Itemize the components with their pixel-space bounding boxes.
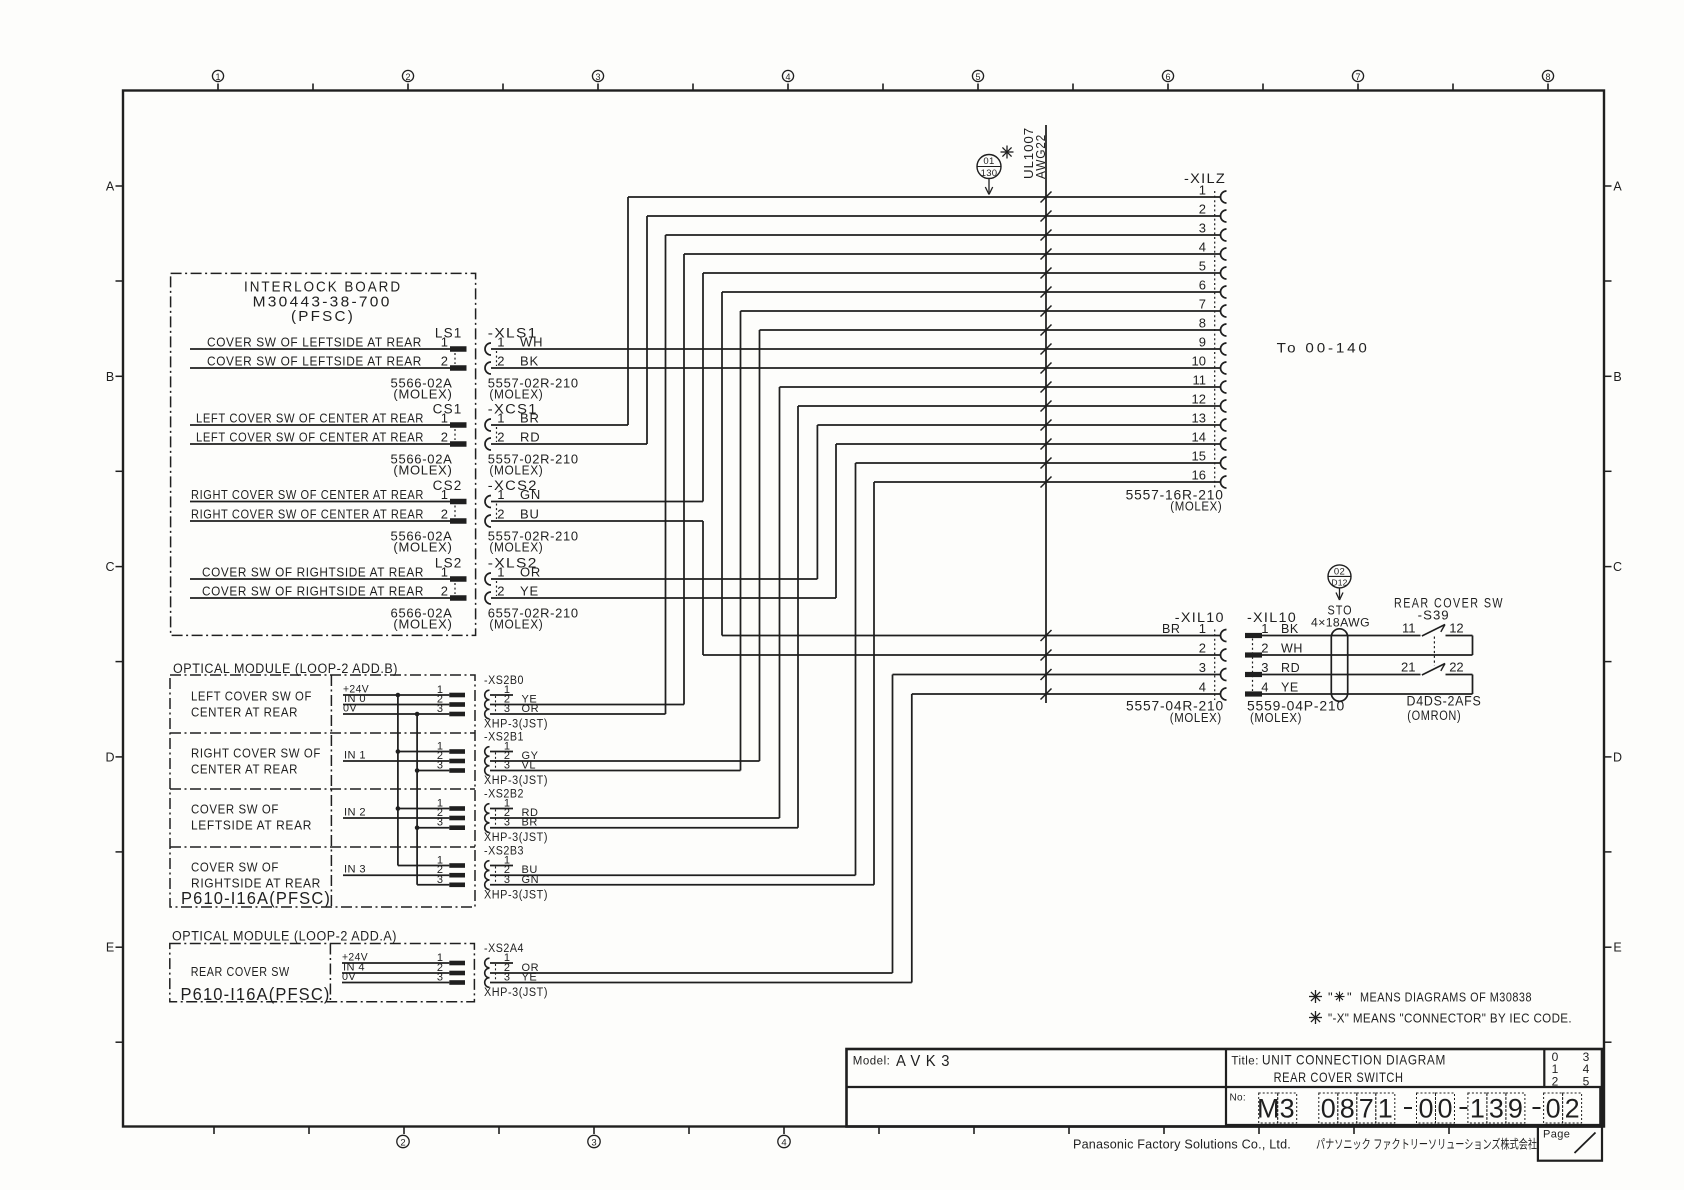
svg-text:2: 2	[405, 72, 410, 82]
svg-text:A: A	[1613, 180, 1622, 194]
svg-text:AVK3: AVK3	[896, 1053, 955, 1070]
-XS2B3 contacts	[485, 861, 490, 871]
svg-text:(MOLEX): (MOLEX)	[489, 617, 543, 632]
svg-text:11: 11	[1402, 621, 1416, 636]
svg-text:4: 4	[1199, 680, 1206, 695]
svg-text:(MOLEX): (MOLEX)	[393, 540, 452, 555]
svg-text:YE: YE	[520, 584, 539, 599]
svg-text:COVER SW OF RIGHTSIDE AT REAR: COVER SW OF RIGHTSIDE AT REAR	[202, 584, 424, 599]
svg-text:7: 7	[1199, 297, 1206, 312]
wire to XIL10-1 BR	[722, 635, 1221, 637]
svg-text:IN 2: IN 2	[344, 807, 366, 819]
wire XS2A4-3 YE lead	[490, 982, 912, 984]
svg-text:6: 6	[1199, 278, 1206, 293]
svg-text:E: E	[1613, 941, 1621, 955]
svg-text:1: 1	[1199, 183, 1206, 198]
-XS2B1 housing link	[495, 753, 497, 770]
top ruler ticks	[217, 84, 219, 91]
CS2 pin2 tab	[450, 518, 467, 524]
-XS2B0 contacts	[485, 690, 490, 700]
svg-text:3: 3	[1199, 660, 1206, 675]
bundle wire join slashes	[1041, 192, 1052, 203]
svg-text:Panasonic Factory Solutions Co: Panasonic Factory Solutions Co., Ltd.	[1073, 1137, 1291, 1152]
svg-text:0: 0	[1437, 1094, 1452, 1124]
svg-text:2: 2	[1199, 641, 1206, 656]
wire -XS2B0 board lead	[343, 694, 449, 696]
svg-text:22: 22	[1449, 660, 1463, 675]
0V bus wire	[416, 714, 418, 885]
wire XCS2-2 BU lead	[491, 520, 703, 522]
-XILZ housing link	[1214, 191, 1216, 488]
svg-text:2: 2	[497, 584, 504, 599]
svg-text:14: 14	[1192, 430, 1206, 445]
balloon 02 arrow	[1339, 588, 1341, 598]
svg-text:BK: BK	[520, 354, 539, 369]
CS1 pin2 tab	[450, 441, 467, 447]
junction dots +24V bus	[396, 693, 401, 698]
svg-text:10: 10	[1192, 354, 1206, 369]
-XCS1 housing link	[496, 427, 498, 442]
svg-text:2: 2	[497, 507, 504, 522]
svg-text:1: 1	[1261, 621, 1268, 636]
svg-text:A: A	[106, 180, 115, 194]
+24V bus wire	[397, 695, 399, 866]
-XLS1 pin1 contact	[485, 343, 491, 355]
svg-text:1: 1	[497, 565, 504, 580]
-XLS2 pin1 contact	[485, 573, 491, 585]
svg-text:CENTER AT REAR: CENTER AT REAR	[191, 705, 298, 720]
svg-text:": "	[1328, 990, 1333, 1005]
svg-text:(OMRON): (OMRON)	[1407, 708, 1461, 723]
svg-text:REAR COVER SWITCH: REAR COVER SWITCH	[1274, 1069, 1404, 1085]
CS1 pin1 tab	[450, 422, 467, 428]
svg-text:OR: OR	[520, 565, 541, 580]
svg-text:XHP-3(JST): XHP-3(JST)	[484, 889, 548, 901]
svg-text:IN 1: IN 1	[344, 750, 366, 762]
wire XCS2-2 BU to XIL10-2 vertical	[702, 521, 704, 655]
wire XS2A4-2 OR to XIL10-3 vertical	[892, 675, 894, 974]
wire XS2B1-3 VL to XILZ-7	[741, 310, 1221, 312]
svg-text:6: 6	[1165, 72, 1170, 82]
svg-text:P610-I16A(PFSC): P610-I16A(PFSC)	[181, 888, 331, 908]
svg-text:D: D	[1613, 750, 1622, 764]
wire XIL10-3 RD to switch 21	[1262, 674, 1421, 676]
svg-text:BR: BR	[520, 411, 540, 426]
bottom zone numbers 2-4	[397, 1135, 409, 1147]
wire -XS2A4 board lead	[342, 962, 449, 964]
svg-text:COVER SW OF LEFTSIDE AT REAR: COVER SW OF LEFTSIDE AT REAR	[207, 354, 422, 369]
svg-text:2: 2	[1552, 1075, 1559, 1089]
svg-text:5: 5	[975, 72, 980, 82]
wire XCS1-1 BR to XILZ-1	[628, 196, 1221, 198]
wire -XS2B0 board lead	[343, 713, 449, 715]
wire LS2 pin1 board lead	[190, 578, 450, 580]
bottom ruler ticks	[213, 1127, 215, 1135]
svg-text:3: 3	[1489, 1094, 1504, 1124]
svg-text:OPTICAL MODULE (LOOP-2 ADD.A): OPTICAL MODULE (LOOP-2 ADD.A)	[172, 929, 397, 944]
wire -XS2B1 board lead	[343, 760, 449, 762]
svg-text:(MOLEX): (MOLEX)	[489, 540, 543, 555]
svg-text:2: 2	[441, 354, 448, 369]
svg-text:RIGHT COVER SW OF: RIGHT COVER SW OF	[191, 746, 321, 761]
svg-text:1: 1	[1199, 621, 1206, 636]
svg-text:IN 3: IN 3	[344, 864, 366, 876]
svg-text:M: M	[1257, 1094, 1280, 1124]
svg-text:XHP-3(JST): XHP-3(JST)	[484, 832, 548, 844]
-XCS1 pin1 contact	[485, 419, 491, 431]
svg-text:16: 16	[1192, 468, 1206, 483]
-XS2B2 housing link	[495, 810, 497, 827]
wire -XS2B1 board lead	[398, 751, 449, 753]
svg-text:7: 7	[1359, 1094, 1374, 1124]
svg-text:COVER SW OF LEFTSIDE AT REAR: COVER SW OF LEFTSIDE AT REAR	[207, 335, 422, 350]
wire XCS1-1 lead	[491, 424, 628, 426]
svg-text:BR: BR	[1162, 622, 1181, 636]
svg-text:Page: Page	[1543, 1129, 1570, 1141]
wire LS1 pin1 board lead	[190, 348, 450, 350]
-XCS2 housing link	[496, 504, 498, 520]
svg-text:1: 1	[497, 411, 504, 426]
-XS2A4 board tabs	[449, 961, 465, 966]
svg-text:LEFT COVER SW OF CENTER AT REA: LEFT COVER SW OF CENTER AT REAR	[196, 430, 424, 445]
svg-text:P610-I16A(PFSC): P610-I16A(PFSC)	[181, 984, 331, 1004]
wire XS2A4-2 OR lead	[490, 972, 893, 974]
svg-text:LEFT COVER SW OF: LEFT COVER SW OF	[191, 689, 312, 704]
svg-text:(MOLEX): (MOLEX)	[489, 387, 543, 402]
wire XIL10-4 YE return	[1262, 693, 1473, 695]
svg-text:11: 11	[1193, 373, 1207, 388]
title block frame	[847, 1049, 1603, 1127]
wire XS2B2-3 BR to XILZ-12	[798, 405, 1221, 407]
wire XS2B3-3 GN to XILZ-16	[874, 481, 1221, 483]
reference mark (top)	[1001, 146, 1014, 159]
svg-text:D12: D12	[1331, 577, 1347, 587]
-XLS1 pin2 contact	[485, 362, 491, 374]
svg-text:4: 4	[785, 72, 790, 82]
svg-text:2: 2	[497, 430, 504, 445]
LS1 pin2 tab	[450, 365, 467, 371]
svg-text:1: 1	[441, 487, 448, 502]
svg-text:(PFSC): (PFSC)	[291, 308, 355, 325]
wire XLS1-2 BK to XILZ-10	[491, 367, 1221, 369]
wire XS2B0-2 YE lead	[490, 704, 684, 706]
svg-text:BU: BU	[520, 507, 540, 522]
-XS2A4 contacts	[485, 958, 490, 968]
svg-text:B: B	[106, 370, 114, 384]
title block page box	[1538, 1126, 1602, 1160]
CS2 housing link	[454, 506, 456, 518]
svg-text:RIGHT COVER SW OF CENTER AT RE: RIGHT COVER SW OF CENTER AT REAR	[191, 487, 424, 502]
svg-text:3: 3	[437, 703, 443, 715]
wire XS2B0-3 OR to XILZ-3	[666, 234, 1221, 236]
connector -XIL10 plug pins	[1245, 633, 1262, 638]
svg-text:LS2: LS2	[435, 556, 463, 571]
-XS2B2 pin1 stub	[490, 808, 513, 810]
wire XS2B3-2 BU lead	[490, 874, 856, 876]
svg-text:E: E	[106, 941, 114, 955]
wire XILZ-6 to XIL10-1 BR	[722, 291, 1221, 293]
wire XLS2-2 YE lead	[491, 597, 836, 599]
svg-text:(MOLEX): (MOLEX)	[1170, 710, 1222, 725]
CS1 housing link	[454, 429, 456, 440]
-XCS2 pin2 contact	[485, 515, 491, 527]
svg-text:8: 8	[1545, 72, 1550, 82]
left ruler ticks	[116, 280, 124, 282]
-XS2B2 board tabs	[449, 806, 465, 811]
svg-text:Model:: Model:	[853, 1056, 891, 1068]
CS2 pin1 tab	[450, 499, 467, 505]
wire LS2 pin2 board lead	[190, 597, 450, 599]
svg-text:COVER SW OF: COVER SW OF	[191, 860, 279, 875]
wire XCS2-1 GN to XILZ-5	[703, 272, 1221, 274]
balloon 02/D12	[1328, 565, 1351, 588]
svg-text:0: 0	[1418, 1094, 1433, 1124]
svg-text:LS1: LS1	[435, 326, 463, 341]
wire CS1 pin2 board lead	[190, 443, 450, 445]
svg-text:LEFT COVER SW OF CENTER AT REA: LEFT COVER SW OF CENTER AT REAR	[196, 411, 424, 426]
svg-text:5: 5	[1583, 1075, 1590, 1089]
svg-text:(MOLEX): (MOLEX)	[393, 617, 452, 632]
svg-text:OPTICAL MODULE (LOOP-2 ADD.B): OPTICAL MODULE (LOOP-2 ADD.B)	[173, 661, 398, 676]
svg-text:4: 4	[781, 1138, 786, 1149]
svg-text:2: 2	[441, 584, 448, 599]
wire CS1 pin1 board lead	[190, 424, 450, 426]
cable sheath STO	[1331, 629, 1347, 702]
-XS2B1 pin1 stub	[490, 751, 513, 753]
right ruler ticks	[1604, 280, 1612, 282]
svg-text:9: 9	[1508, 1094, 1523, 1124]
wire XLS2-1 OR lead	[491, 578, 817, 580]
svg-text:1: 1	[215, 72, 220, 82]
wire XS2B2-3 BR lead	[490, 827, 798, 829]
-XLS2 housing link	[496, 581, 498, 596]
wire -XS2A4 board lead	[342, 972, 449, 974]
svg-text:5: 5	[1199, 259, 1206, 274]
svg-text:WH: WH	[520, 335, 543, 350]
-XS2B3 pin1 stub	[490, 865, 513, 867]
svg-text:8: 8	[1340, 1094, 1355, 1124]
svg-text:-S39: -S39	[1418, 608, 1450, 623]
svg-text:"-X" MEANS "CONNECTOR" BY: "-X" MEANS "CONNECTOR" BY IEC CODE.	[1328, 1011, 1572, 1026]
svg-text:UNIT CONNECTION DIAGRAM: UNIT CONNECTION DIAGRAM	[1262, 1052, 1446, 1068]
svg-text:2: 2	[1199, 202, 1206, 217]
svg-text:B: B	[1613, 370, 1621, 384]
svg-text:WH: WH	[1281, 642, 1303, 656]
wire -XS2B2 board lead	[343, 817, 449, 819]
svg-text:9: 9	[1199, 335, 1206, 350]
-XS2A4 pin1 stub	[490, 962, 513, 964]
svg-text:(MOLEX): (MOLEX)	[393, 387, 452, 402]
LS2 pin2 tab	[450, 595, 467, 601]
wire XCS1-2 RD to XILZ-2	[647, 215, 1221, 217]
svg-text:C: C	[105, 560, 114, 574]
svg-text:Title:: Title:	[1231, 1056, 1259, 1068]
svg-text:0: 0	[1546, 1094, 1561, 1124]
svg-text:3: 3	[437, 874, 443, 886]
svg-text:REAR COVER SW: REAR COVER SW	[191, 964, 290, 979]
svg-text:No:: No:	[1230, 1093, 1246, 1104]
-XLS2 pin2 contact	[485, 592, 491, 604]
wire XS2B3-3 GN lead	[490, 884, 874, 886]
wire LS1 pin2 board lead	[190, 367, 450, 369]
-XS2A4 housing link	[495, 964, 497, 982]
wire -XS2B3 board lead	[343, 874, 449, 876]
svg-text:AWG22: AWG22	[1034, 134, 1048, 179]
drawing frame border	[123, 91, 1604, 1127]
svg-text:COVER SW OF RIGHTSIDE AT REAR: COVER SW OF RIGHTSIDE AT REAR	[202, 565, 424, 580]
svg-text:1: 1	[1378, 1094, 1393, 1124]
LS2 housing link	[454, 583, 456, 594]
svg-text:2: 2	[1565, 1094, 1580, 1124]
-XLS1 housing link	[496, 351, 498, 366]
svg-text:4: 4	[1261, 680, 1268, 695]
wire XS2A4-3 YE to XIL10-4 vertical	[911, 694, 913, 983]
balloon 01/130	[977, 155, 1001, 179]
svg-text:To 00-140: To 00-140	[1277, 340, 1370, 356]
wire XIL10-2 WH return	[1262, 654, 1473, 656]
svg-text:3: 3	[1199, 221, 1206, 236]
svg-text:4: 4	[1199, 240, 1206, 255]
svg-text:YE: YE	[1281, 681, 1299, 695]
switch return rail 12 to pin2	[1472, 636, 1474, 656]
svg-text:3: 3	[591, 1138, 596, 1149]
-XIL10 plug housing link	[1252, 639, 1254, 692]
svg-text:0: 0	[1321, 1094, 1336, 1124]
svg-text:12: 12	[1449, 621, 1463, 636]
wire -XS2B1 board lead	[417, 770, 449, 772]
-XS2B3 housing link	[495, 867, 497, 884]
-XS2B1 board tabs	[449, 749, 465, 754]
svg-text:2: 2	[1261, 641, 1268, 656]
svg-text:3: 3	[1261, 660, 1268, 675]
-XS2B0 housing link	[495, 696, 497, 713]
svg-text:4×18AWG: 4×18AWG	[1311, 616, 1370, 630]
svg-text:02: 02	[1334, 566, 1345, 577]
-XS2B0 board tabs	[449, 693, 465, 698]
wire to XIL10-3	[893, 674, 1221, 676]
wire to XIL10-4	[912, 693, 1221, 695]
LS1 pin1 tab	[450, 346, 467, 352]
svg-text:21: 21	[1401, 660, 1415, 675]
-XS2B2 contacts	[485, 804, 490, 814]
svg-text:XHP-3(JST): XHP-3(JST)	[484, 987, 548, 999]
connector -XILZ contacts	[1221, 191, 1227, 203]
svg-text:3: 3	[437, 817, 443, 829]
svg-text:GN: GN	[520, 487, 541, 502]
wire XS2B2-2 RD lead	[490, 817, 780, 819]
connector -XIL10 receptacle contacts	[1221, 630, 1227, 642]
wire XS2B0-2 YE to XILZ-4	[684, 253, 1221, 255]
svg-text:1: 1	[441, 335, 448, 350]
-XS2B0 pin1 stub	[490, 694, 513, 696]
svg-text:C: C	[1613, 560, 1622, 574]
wire XS2B0-3 OR lead	[490, 713, 666, 715]
svg-text:RIGHT COVER SW OF CENTER AT RE: RIGHT COVER SW OF CENTER AT REAR	[191, 507, 424, 522]
-XS2B1 contacts	[485, 747, 490, 757]
top zone numbers 1-8	[212, 70, 223, 81]
svg-text:MEANS DIAGRAMS OF M30838: MEANS DIAGRAMS OF M30838	[1360, 990, 1532, 1005]
balloon 01 arrow	[988, 179, 990, 193]
wire XS2B2-2 RD to XILZ-11	[780, 386, 1221, 388]
svg-text:CENTER AT REAR: CENTER AT REAR	[191, 762, 298, 777]
wire to XIL10-2	[703, 654, 1221, 656]
svg-text:(MOLEX): (MOLEX)	[393, 463, 452, 478]
switch return rail 22 to pin4	[1472, 675, 1474, 695]
wire -XS2B3 board lead	[398, 865, 449, 867]
wire -XS2B2 board lead	[398, 808, 449, 810]
wire XIL10-1 BK to switch 11	[1262, 635, 1421, 637]
svg-text:2: 2	[441, 430, 448, 445]
switch mechanical link	[1433, 637, 1435, 666]
svg-text:D4DS-2AFS: D4DS-2AFS	[1407, 694, 1482, 709]
LS1 housing link	[454, 353, 456, 364]
wire XS2B1-3 VL lead	[490, 770, 741, 772]
wire XS2B1-2 GY to XILZ-8	[760, 329, 1221, 331]
wire XLS2-1 OR to XILZ-13	[817, 424, 1220, 426]
svg-text:パナソニック ファクトリーソリューションズ株式会社: パナソニック ファクトリーソリューションズ株式会社	[1316, 1137, 1537, 1152]
note 1	[1309, 990, 1322, 1003]
svg-text:(MOLEX): (MOLEX)	[489, 463, 543, 478]
wire -XS2B0 board lead	[343, 704, 449, 706]
svg-text:": "	[1347, 990, 1352, 1005]
LS2 pin1 tab	[450, 576, 467, 582]
interlock board outline	[171, 273, 476, 635]
cable bundle line	[1045, 125, 1047, 703]
svg-text:XHP-3(JST): XHP-3(JST)	[484, 775, 548, 787]
-XCS2 pin1 contact	[485, 496, 491, 508]
svg-text:3: 3	[437, 760, 443, 772]
wire -XS2B3 board lead	[417, 884, 449, 886]
wire XS2B3-2 BU to XILZ-15	[856, 462, 1221, 464]
wire XCS2-1 GN lead	[491, 501, 703, 503]
wire -XS2A4 board lead	[342, 982, 449, 984]
svg-text:D: D	[105, 750, 114, 764]
svg-text:8: 8	[1199, 316, 1206, 331]
wire XLS1-1 WH to XILZ-9	[491, 348, 1221, 350]
svg-text:(MOLEX): (MOLEX)	[1250, 710, 1302, 725]
-XIL10 receptacle housing link	[1214, 630, 1216, 701]
svg-text:2: 2	[497, 354, 504, 369]
svg-text:12: 12	[1192, 392, 1206, 407]
wire -XS2B2 board lead	[417, 827, 449, 829]
svg-text:3: 3	[437, 972, 443, 984]
svg-text:2: 2	[400, 1138, 405, 1149]
svg-text:LEFTSIDE AT REAR: LEFTSIDE AT REAR	[191, 818, 312, 833]
svg-text:1: 1	[441, 411, 448, 426]
junction dots 0V bus	[415, 712, 420, 717]
svg-text:13: 13	[1192, 411, 1206, 426]
-XS2B3 board tabs	[449, 863, 465, 868]
svg-text:RD: RD	[520, 430, 540, 445]
svg-text:(MOLEX): (MOLEX)	[1170, 499, 1222, 514]
svg-text:01: 01	[983, 156, 994, 167]
-XCS1 pin2 contact	[485, 438, 491, 450]
svg-text:15: 15	[1192, 449, 1206, 464]
svg-text:COVER SW OF: COVER SW OF	[191, 802, 279, 817]
wire XS2B1-2 GY lead	[490, 760, 760, 762]
svg-text:130: 130	[981, 168, 998, 179]
wire CS2 pin2 board lead	[190, 520, 450, 522]
svg-text:1: 1	[441, 565, 448, 580]
svg-text:2: 2	[441, 507, 448, 522]
svg-text:BK: BK	[1281, 622, 1299, 636]
note 2	[1309, 1011, 1322, 1024]
svg-text:7: 7	[1355, 72, 1360, 82]
svg-text:3: 3	[1280, 1094, 1295, 1124]
svg-text:1: 1	[497, 487, 504, 502]
svg-text:3: 3	[595, 72, 600, 82]
svg-text:1: 1	[497, 335, 504, 350]
